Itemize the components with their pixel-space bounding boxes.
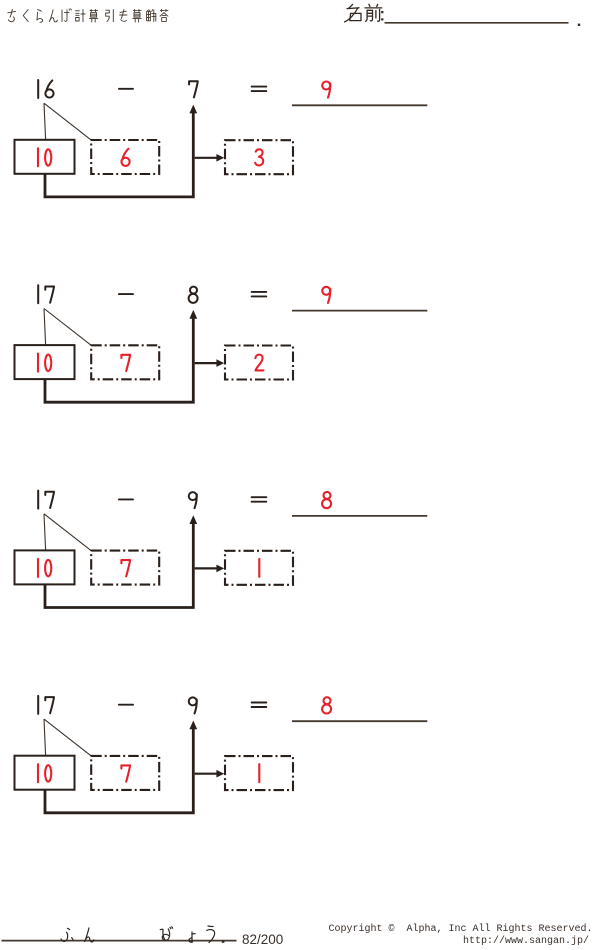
connector line to ones box: [44, 514, 92, 551]
connector line to ones box: [44, 103, 92, 140]
answer line: [292, 310, 427, 312]
ones box (dash-dot): [91, 756, 159, 790]
problem 1: equation 16 - 7 = 9: [15, 80, 428, 197]
problem 2: equation 17 - 8 = 9: [15, 285, 428, 402]
fun (minutes) label: [61, 928, 73, 941]
value 7 (red): [121, 560, 130, 576]
svg-text:http://www.sangan.jp/: http://www.sangan.jp/: [463, 935, 589, 947]
subtrahend 8: [189, 287, 198, 303]
answer line: [292, 720, 427, 722]
svg-text:82/200: 82/200: [242, 932, 283, 947]
minuend 17: [37, 491, 39, 509]
connector line to ones box: [44, 719, 92, 756]
ones box (dash-dot): [91, 551, 159, 585]
name label (namae): [345, 4, 384, 22]
arrow to result box: [195, 362, 217, 364]
value 1 (red): [258, 559, 260, 577]
connector line to tens box: [44, 103, 46, 139]
value 6 (red): [121, 149, 129, 166]
arrow to result box: [195, 773, 217, 775]
header title: sakuranbo keisan hikizan kaitou: [8, 9, 168, 23]
subtrahend 9: [189, 492, 197, 508]
answer 9 (red): [322, 287, 330, 303]
arrow to result box: [195, 567, 217, 569]
svg-text:Copyright © Alpha, Inc All Ri: Copyright © Alpha, Inc All Rights Reserv…: [328, 923, 592, 935]
problem 4: equation 17 - 9 = 8: [15, 696, 428, 813]
arrow path from tens box to subtrahend: [45, 728, 193, 812]
minuend 17: [37, 285, 39, 303]
value 10 (red): [37, 559, 39, 577]
value 10 (red): [37, 764, 39, 782]
value 7 (red): [121, 765, 130, 781]
arrow to result box: [195, 157, 217, 159]
value 10 (red): [37, 354, 39, 372]
answer line: [292, 104, 427, 106]
byou (seconds) label: [160, 927, 172, 941]
minus sign: [119, 88, 133, 90]
equals sign: [252, 703, 267, 708]
name underline: [385, 22, 569, 24]
ones box (dash-dot): [91, 140, 159, 174]
result box (dash-dot): [225, 756, 293, 790]
connector line to tens box: [44, 514, 46, 550]
footer time line: [2, 940, 237, 942]
answer 9 (red): [322, 82, 330, 98]
minus sign: [119, 704, 133, 706]
tens box (solid): [15, 550, 75, 584]
value 1 (red): [258, 764, 260, 782]
result box (dash-dot): [225, 551, 293, 585]
value 3 (red): [255, 149, 263, 165]
arrow path from tens box to subtrahend: [45, 113, 193, 197]
arrow path from tens box to subtrahend: [45, 318, 193, 402]
minuend 17: [37, 696, 39, 714]
minus sign: [119, 293, 133, 295]
equals sign: [252, 497, 267, 502]
subtrahend 7: [189, 81, 198, 97]
connector line to ones box: [44, 309, 92, 346]
answer 8 (red): [322, 697, 331, 713]
equals sign: [252, 87, 267, 92]
minuend 16: [37, 80, 39, 98]
problem 3: equation 17 - 9 = 8: [15, 491, 428, 608]
ones box (dash-dot): [91, 345, 159, 379]
result box (dash-dot): [225, 140, 293, 174]
minus sign: [119, 498, 133, 500]
value 2 (red): [255, 355, 263, 371]
arrow path from tens box to subtrahend: [45, 523, 193, 607]
answer line: [292, 515, 427, 517]
trailing period: [578, 24, 580, 26]
tens box (solid): [15, 756, 75, 790]
value 10 (red): [37, 148, 39, 166]
subtrahend 9: [189, 697, 197, 713]
tens box (solid): [15, 140, 75, 174]
connector line to tens box: [44, 719, 46, 755]
equals sign: [252, 292, 267, 297]
connector line to tens box: [44, 309, 46, 345]
answer 8 (red): [322, 492, 331, 508]
tens box (solid): [15, 345, 75, 379]
result box (dash-dot): [225, 346, 293, 380]
value 7 (red): [121, 355, 130, 371]
